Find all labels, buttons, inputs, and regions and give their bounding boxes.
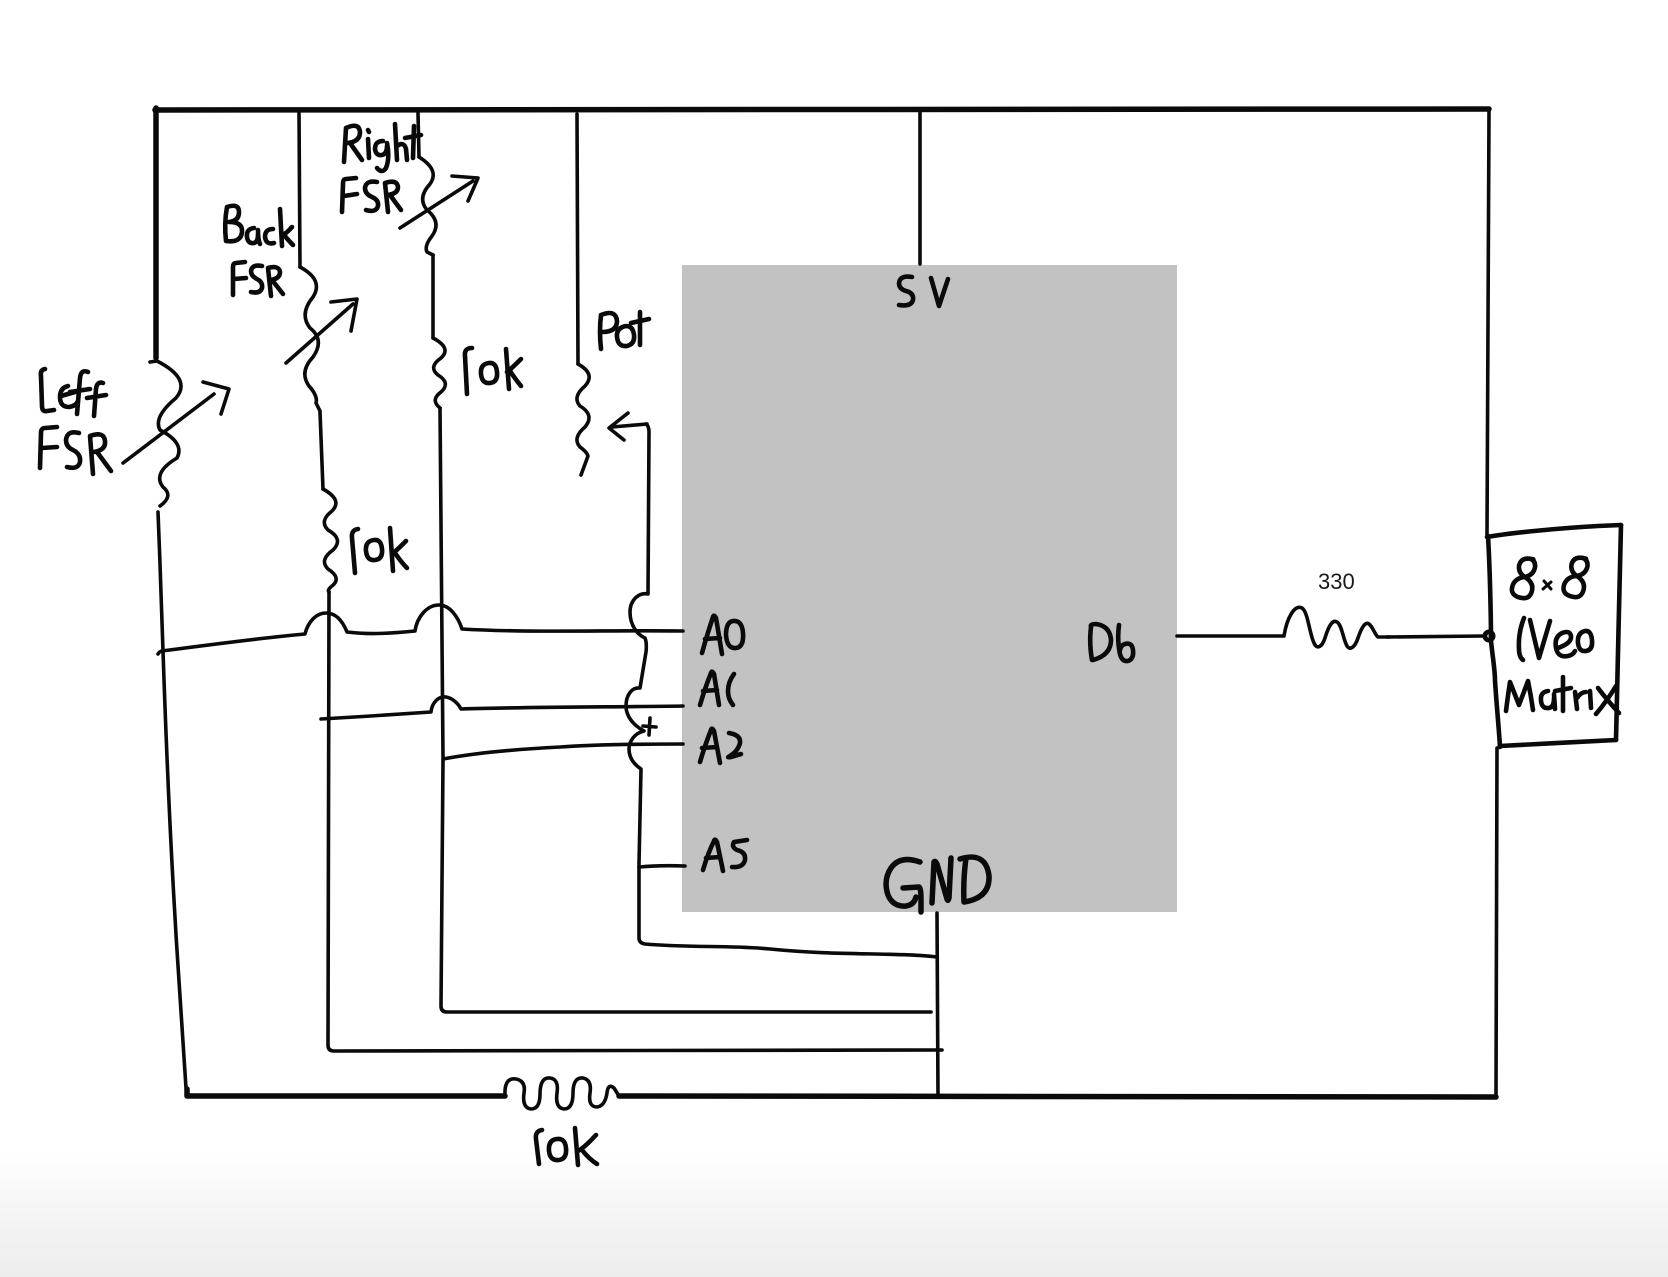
svg-text:330: 330 bbox=[1318, 569, 1355, 594]
